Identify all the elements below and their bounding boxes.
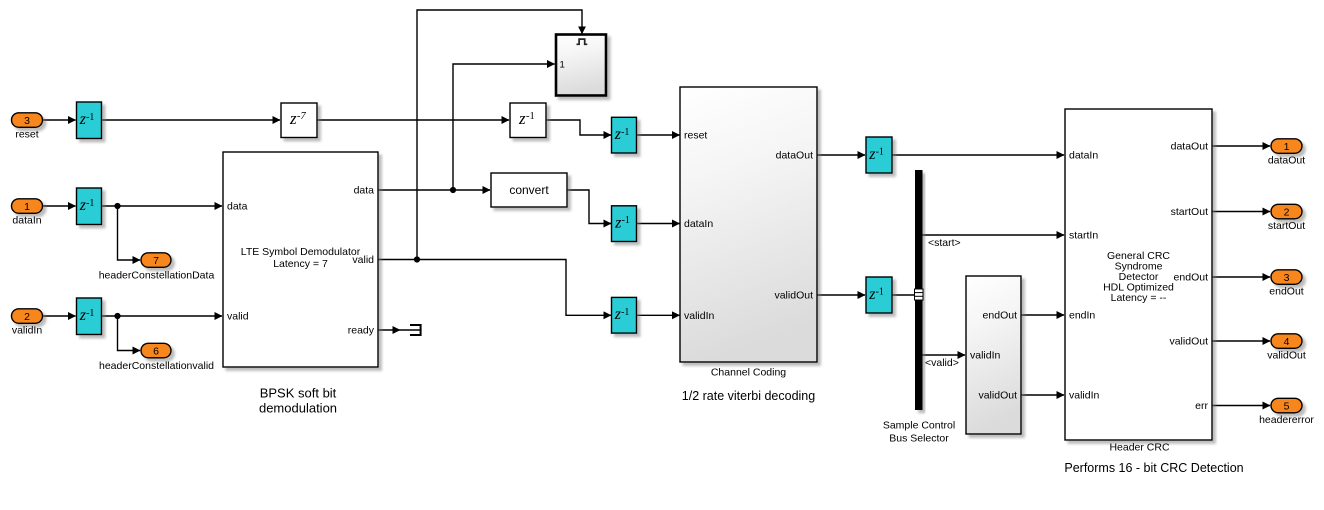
wire convert to cyan delay xyxy=(567,190,611,224)
wire reset: cyan delay to Channel Coding reset xyxy=(637,134,680,136)
svg-text:-1: -1 xyxy=(86,308,94,319)
delay Z-1 cyan (reset row) xyxy=(612,117,637,153)
svg-text:dataOut: dataOut xyxy=(1171,141,1208,153)
block convert xyxy=(491,173,567,207)
wire reset: delay to Z-7 xyxy=(102,119,281,121)
svg-text:validOut: validOut xyxy=(1267,350,1306,362)
svg-text:1: 1 xyxy=(1284,141,1290,153)
node junction data xyxy=(450,187,456,193)
svg-text:dataIn: dataIn xyxy=(684,218,713,230)
wire validIn: delay to LTE valid xyxy=(102,315,223,317)
svg-text:-1: -1 xyxy=(622,215,630,226)
inport 1 dataIn xyxy=(12,199,43,227)
svg-text:Latency = 7: Latency = 7 xyxy=(273,258,328,270)
block Channel Coding xyxy=(680,87,817,403)
svg-text:6: 6 xyxy=(153,345,159,357)
svg-text:endOut: endOut xyxy=(1174,272,1209,284)
wire Channel dataOut to cyan delay xyxy=(817,154,865,156)
svg-text:startIn: startIn xyxy=(1069,230,1098,242)
svg-text:z: z xyxy=(518,109,526,128)
svg-text:Bus Selector: Bus Selector xyxy=(889,433,949,445)
delay Z-7 xyxy=(281,103,317,138)
wire branch valid up to scope top xyxy=(417,10,582,260)
svg-text:err: err xyxy=(1195,400,1208,412)
signal label start xyxy=(928,237,961,249)
terminator xyxy=(400,324,421,336)
svg-text:-1: -1 xyxy=(526,111,535,122)
wire LTE ready to terminator xyxy=(378,329,400,331)
svg-text:3: 3 xyxy=(24,115,30,127)
delay Z-1 white xyxy=(510,103,546,138)
inport 2 validIn xyxy=(12,309,43,337)
bus selector bar xyxy=(883,170,955,445)
wire Channel validOut to cyan delay xyxy=(817,294,865,296)
svg-text:-1: -1 xyxy=(86,112,94,123)
svg-text:-1: -1 xyxy=(621,127,629,138)
svg-text:validIn: validIn xyxy=(1069,390,1100,402)
inport 3 reset xyxy=(12,113,43,141)
wire cyan delay to Channel Coding dataIn xyxy=(637,223,680,225)
block Header CRC xyxy=(1064,109,1243,475)
outport 4 validOut xyxy=(1267,334,1306,362)
svg-text:valid: valid xyxy=(227,311,249,323)
node junction validIn xyxy=(114,313,120,319)
svg-text:1: 1 xyxy=(24,201,30,213)
delay Z-1 cyan (validOut) xyxy=(866,277,892,313)
svg-text:validIn: validIn xyxy=(684,310,715,322)
svg-text:-1: -1 xyxy=(86,198,94,209)
svg-text:dataOut: dataOut xyxy=(776,150,813,162)
svg-text:-1: -1 xyxy=(876,147,884,158)
svg-text:endOut: endOut xyxy=(1269,286,1304,298)
svg-text:1: 1 xyxy=(560,60,565,71)
svg-text:BPSK soft bit: BPSK soft bit xyxy=(260,386,337,401)
wire reset: white delay to cyan delay (jog down) xyxy=(546,120,611,135)
outport 3 endOut xyxy=(1269,270,1304,298)
wire bus selector start to Header CRC startIn xyxy=(922,234,1064,236)
svg-text:reset: reset xyxy=(15,129,38,141)
svg-text:endIn: endIn xyxy=(1069,310,1095,322)
svg-text:headerConstellationvalid: headerConstellationvalid xyxy=(99,360,214,372)
delay Z-1 validIn (cyan) xyxy=(77,298,102,335)
delay Z-1 cyan (dataOut) xyxy=(866,137,892,173)
svg-text:5: 5 xyxy=(1284,400,1290,412)
svg-text:-7: -7 xyxy=(297,111,306,122)
node junction dataIn xyxy=(114,203,120,209)
wire cyan delay to Channel Coding validIn xyxy=(637,314,680,316)
svg-text:Sample Control: Sample Control xyxy=(883,420,955,432)
svg-text:validOut: validOut xyxy=(978,390,1017,402)
svg-text:demodulation: demodulation xyxy=(259,401,337,416)
wire Header dataOut to outport 1 xyxy=(1212,145,1270,147)
svg-text:convert: convert xyxy=(509,183,549,197)
wire branch to outport 7 xyxy=(118,206,141,260)
svg-text:2: 2 xyxy=(24,311,30,323)
wire Header err to outport 5 xyxy=(1212,405,1270,407)
node junction valid xyxy=(414,256,420,262)
wire dataIn: inport 1 to delay xyxy=(43,205,76,207)
svg-text:dataIn: dataIn xyxy=(12,215,41,227)
delay Z-1 dataIn (cyan) xyxy=(77,188,102,225)
svg-text:data: data xyxy=(354,185,375,197)
outport 7 headerConstellationData xyxy=(99,253,215,282)
delay Z-1 cyan (data row) xyxy=(612,206,637,242)
outport 5 headererror xyxy=(1259,398,1314,426)
svg-text:1/2 rate viterbi decoding: 1/2 rate viterbi decoding xyxy=(682,389,815,403)
svg-text:LTE Symbol Demodulator: LTE Symbol Demodulator xyxy=(241,246,361,258)
wire LTE valid out to cyan delay (jog) xyxy=(378,260,611,316)
svg-text:-1: -1 xyxy=(621,307,629,318)
wire branch data to scope input 1 xyxy=(453,64,555,190)
wire Header startOut to outport 2 xyxy=(1212,211,1270,213)
svg-text:-1: -1 xyxy=(876,287,884,298)
wire bus selector valid to sample control validIn xyxy=(922,354,965,356)
svg-text:startOut: startOut xyxy=(1268,220,1305,232)
svg-text:ready: ready xyxy=(348,325,375,337)
svg-text:startOut: startOut xyxy=(1171,206,1208,218)
block scope (pulse) xyxy=(556,35,606,96)
wire reset: inport 3 to delay xyxy=(43,119,76,121)
wire Header endOut to outport 3 xyxy=(1212,276,1270,278)
svg-text:validOut: validOut xyxy=(774,290,813,302)
wire cyan delay to Header CRC dataIn xyxy=(892,154,1064,156)
delay Z-1 cyan (valid row) xyxy=(612,297,637,333)
svg-text:validOut: validOut xyxy=(1169,336,1208,348)
svg-text:4: 4 xyxy=(1284,336,1290,348)
svg-text:Performs 16 - bit CRC Detectio: Performs 16 - bit CRC Detection xyxy=(1064,461,1243,475)
svg-text:validIn: validIn xyxy=(12,325,43,337)
svg-text:7: 7 xyxy=(153,255,159,267)
block Sample Control helper xyxy=(966,276,1021,434)
svg-text:<valid>: <valid> xyxy=(925,357,959,369)
delay Z-1 reset (cyan) xyxy=(77,102,102,139)
svg-text:dataOut: dataOut xyxy=(1268,155,1305,167)
wire validIn: inport 2 to delay xyxy=(43,315,76,317)
outport 6 headerConstellationvalid xyxy=(99,343,214,372)
svg-text:headererror: headererror xyxy=(1259,414,1314,426)
block LTE Symbol Demodulator xyxy=(223,152,378,416)
svg-text:Channel Coding: Channel Coding xyxy=(711,367,786,379)
svg-text:headerConstellationData: headerConstellationData xyxy=(99,270,215,282)
svg-text:3: 3 xyxy=(1284,272,1290,284)
wire LTE data out to convert xyxy=(378,189,490,191)
svg-text:z: z xyxy=(289,109,297,128)
signal label valid xyxy=(925,357,959,369)
svg-text:2: 2 xyxy=(1284,206,1290,218)
svg-text:endOut: endOut xyxy=(983,310,1018,322)
svg-text:validIn: validIn xyxy=(970,350,1001,362)
outport 2 startOut xyxy=(1268,204,1305,232)
wire Header validOut to outport 4 xyxy=(1212,340,1270,342)
outport 1 dataOut xyxy=(1268,139,1305,167)
wire dataIn: delay to LTE data xyxy=(102,205,223,207)
svg-text:data: data xyxy=(227,201,248,213)
wire endOut to Header CRC endIn xyxy=(1021,314,1064,316)
wire validOut to Header CRC validIn xyxy=(1021,394,1064,396)
svg-text:reset: reset xyxy=(684,130,707,142)
svg-text:Latency = --: Latency = -- xyxy=(1111,292,1167,304)
wire branch to outport 6 xyxy=(118,316,141,351)
wire cyan delay to bus selector xyxy=(892,294,915,296)
wire reset: Z-7 to white delay xyxy=(317,119,509,121)
svg-text:Header CRC: Header CRC xyxy=(1109,442,1170,454)
svg-text:dataIn: dataIn xyxy=(1069,150,1098,162)
svg-text:<start>: <start> xyxy=(928,237,961,249)
